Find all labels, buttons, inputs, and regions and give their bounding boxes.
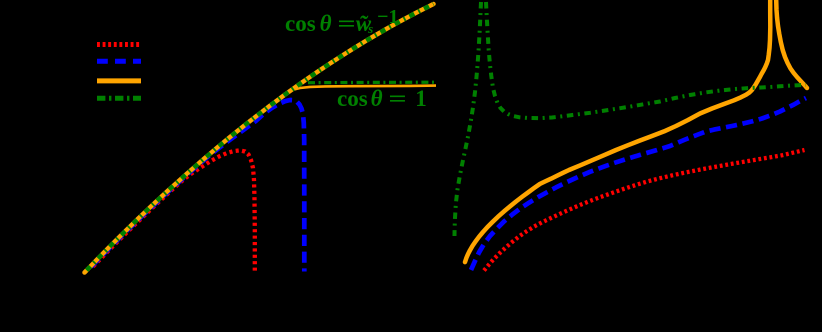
label: cos theta = w_s^-1 <box>285 7 399 35</box>
right panel: orange solid curve left flank of resonance spike <box>465 0 770 262</box>
right panel: red dotted curve <box>484 150 805 271</box>
left panel: orange solid diagonal curve <box>85 4 434 273</box>
left panel: green dash-dot diagonal (cos theta = ws^-1 line) <box>85 4 434 273</box>
left panel: red dotted curve <box>93 150 255 271</box>
legend: green dash-dot sample <box>97 96 141 101</box>
legend: red dotted sample <box>97 42 141 47</box>
legend: blue dashed sample <box>97 59 141 64</box>
right panel: orange solid curve right flank after spike <box>776 0 807 88</box>
right panel: green dash-dot curve lower-left branch <box>455 2 482 236</box>
right panel: green dash-dot curve upper-right branch <box>486 2 806 118</box>
label: cos theta = 1 <box>337 87 427 110</box>
left panel: green dash-dot horizontal (cos theta = 1 line) <box>308 81 437 85</box>
left panel: blue dashed curve <box>91 100 304 272</box>
legend: orange solid sample <box>97 78 141 83</box>
left panel: orange solid lower branch (horizontal) <box>280 86 436 98</box>
right panel: blue dashed curve <box>471 98 806 270</box>
